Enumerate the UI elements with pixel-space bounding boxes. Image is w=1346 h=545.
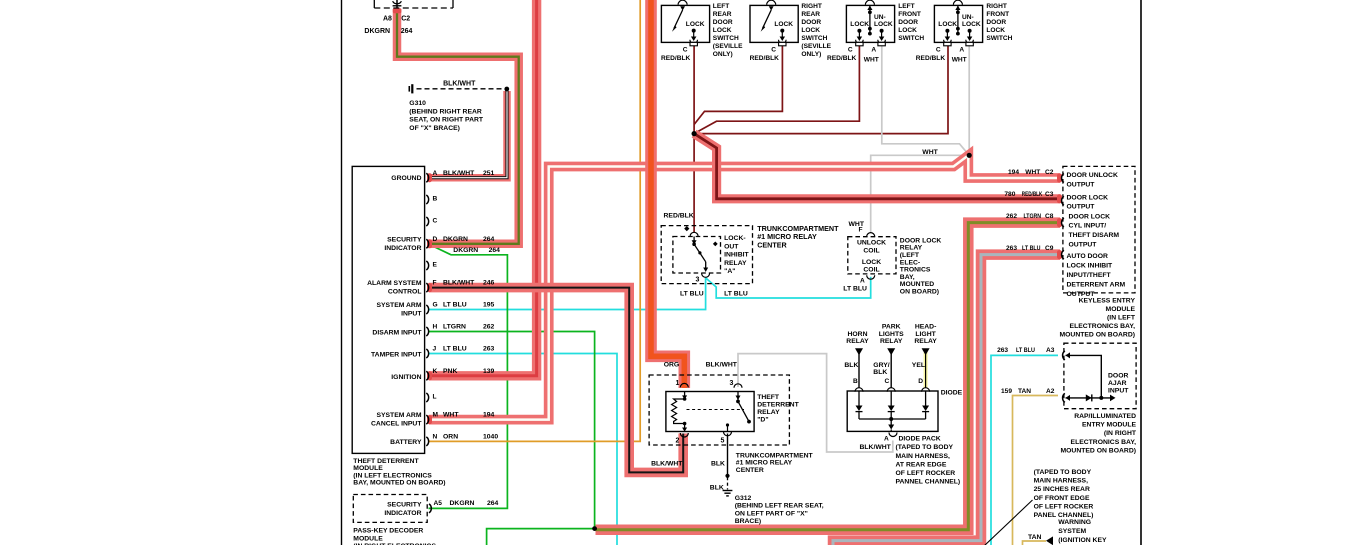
svg-text:G312: G312 — [735, 495, 752, 502]
svg-text:ELECTRONICS BAY,: ELECTRONICS BAY, — [1071, 439, 1137, 446]
svg-text:LT BLU: LT BLU — [443, 302, 467, 309]
svg-text:MAIN HARNESS,: MAIN HARNESS, — [896, 453, 950, 460]
svg-text:BLK/WHT: BLK/WHT — [443, 81, 476, 88]
svg-text:DKGRN: DKGRN — [443, 236, 468, 243]
svg-text:FRONT: FRONT — [898, 11, 921, 18]
svg-text:J: J — [433, 346, 437, 353]
svg-text:C3: C3 — [1045, 191, 1054, 198]
svg-text:LEFT: LEFT — [713, 3, 729, 10]
svg-text:LIGHTS: LIGHTS — [879, 331, 904, 338]
svg-text:LTGRN: LTGRN — [443, 324, 466, 331]
svg-text:246: 246 — [483, 280, 495, 287]
svg-text:LOCK: LOCK — [774, 21, 793, 28]
svg-text:LOCK-: LOCK- — [724, 235, 746, 242]
svg-text:PASS-KEY DECODER: PASS-KEY DECODER — [353, 528, 423, 535]
svg-text:251: 251 — [483, 170, 495, 177]
svg-text:C: C — [433, 218, 438, 225]
svg-text:264: 264 — [401, 28, 413, 35]
svg-text:SWITCH: SWITCH — [713, 35, 739, 42]
svg-text:REAR: REAR — [713, 11, 732, 18]
svg-text:264: 264 — [487, 500, 499, 507]
svg-text:RED/BLK: RED/BLK — [1022, 191, 1043, 198]
svg-text:THEFT DETERRENT: THEFT DETERRENT — [353, 458, 419, 465]
svg-text:H: H — [433, 324, 438, 331]
svg-text:263: 263 — [997, 347, 1008, 354]
svg-text:CANCEL INPUT: CANCEL INPUT — [371, 421, 422, 428]
svg-text:OUTPUT: OUTPUT — [1069, 242, 1098, 249]
svg-text:B: B — [433, 196, 438, 203]
svg-text:139: 139 — [483, 368, 495, 375]
svg-text:TRUNKCOMPARTMENT: TRUNKCOMPARTMENT — [736, 452, 814, 459]
svg-text:YEL: YEL — [912, 362, 925, 369]
svg-text:CENTER: CENTER — [736, 467, 764, 474]
svg-text:PANNEL CHANNEL): PANNEL CHANNEL) — [896, 479, 961, 486]
svg-text:LT BLU: LT BLU — [843, 286, 867, 293]
svg-text:G: G — [433, 302, 438, 309]
svg-text:RELAY: RELAY — [914, 338, 937, 345]
svg-text:DKGRN: DKGRN — [450, 500, 475, 507]
svg-text:"A": "A" — [724, 268, 735, 275]
svg-text:BATTERY: BATTERY — [390, 439, 422, 446]
svg-text:C2: C2 — [401, 16, 410, 23]
svg-text:OF FRONT EDGE: OF FRONT EDGE — [1034, 495, 1090, 502]
svg-text:RED/BLK: RED/BLK — [750, 55, 780, 62]
svg-text:INDICATOR: INDICATOR — [384, 245, 421, 252]
svg-text:SECURITY: SECURITY — [387, 237, 422, 244]
svg-text:LT BLU: LT BLU — [443, 346, 467, 353]
svg-text:C: C — [848, 47, 853, 54]
svg-text:(IN RIGHT: (IN RIGHT — [1104, 430, 1137, 437]
svg-text:LOCK: LOCK — [898, 27, 917, 34]
svg-text:A3: A3 — [1046, 347, 1055, 354]
svg-text:LT BLU: LT BLU — [680, 290, 704, 297]
svg-text:BLK/WHT: BLK/WHT — [706, 361, 738, 368]
svg-text:WARNING: WARNING — [1058, 519, 1091, 526]
svg-text:LOCK: LOCK — [962, 21, 981, 28]
svg-text:#1 MICRO RELAY: #1 MICRO RELAY — [736, 460, 793, 467]
svg-text:PANEL CHANNEL): PANEL CHANNEL) — [1034, 512, 1094, 519]
svg-text:D: D — [918, 378, 923, 385]
svg-text:F: F — [433, 280, 437, 287]
svg-text:PNK: PNK — [443, 368, 457, 375]
svg-text:FRONT: FRONT — [986, 11, 1009, 18]
svg-text:(BEHIND RIGHT REAR: (BEHIND RIGHT REAR — [409, 108, 482, 115]
svg-text:DETERRENT ARM: DETERRENT ARM — [1067, 281, 1126, 288]
svg-text:LOCK: LOCK — [713, 27, 732, 34]
svg-text:264: 264 — [483, 236, 495, 243]
svg-text:MOUNTED ON BOARD): MOUNTED ON BOARD) — [1059, 332, 1135, 339]
svg-text:DOOR: DOOR — [713, 19, 733, 26]
svg-text:(TAPED TO BODY: (TAPED TO BODY — [896, 444, 954, 451]
svg-text:WHT: WHT — [922, 149, 938, 156]
svg-text:RELAY: RELAY — [724, 260, 747, 267]
svg-text:DKGRN: DKGRN — [364, 28, 390, 35]
svg-text:INPUT/THEFT: INPUT/THEFT — [1067, 272, 1112, 279]
svg-text:OF LEFT ROCKER: OF LEFT ROCKER — [1034, 503, 1094, 510]
svg-text:A8: A8 — [383, 16, 392, 23]
svg-text:C: C — [683, 47, 688, 54]
svg-text:ELECTRONICS BAY,: ELECTRONICS BAY, — [1070, 323, 1136, 330]
svg-text:BLK/WHT: BLK/WHT — [443, 170, 475, 177]
svg-text:A: A — [860, 278, 865, 285]
svg-text:3: 3 — [696, 277, 700, 284]
svg-text:MOUNTED: MOUNTED — [900, 281, 934, 288]
svg-text:RELAY: RELAY — [880, 338, 903, 345]
svg-text:OUTPUT: OUTPUT — [1067, 181, 1096, 188]
svg-text:A: A — [959, 47, 964, 54]
svg-text:RELAY: RELAY — [757, 409, 780, 416]
svg-text:LT BLU: LT BLU — [1016, 347, 1035, 354]
svg-text:DOOR: DOOR — [898, 19, 918, 26]
svg-text:CENTER: CENTER — [757, 241, 787, 250]
svg-text:AJAR: AJAR — [1108, 380, 1127, 387]
svg-text:OUTPUT: OUTPUT — [1067, 204, 1096, 211]
svg-text:RELAY: RELAY — [900, 245, 923, 252]
svg-text:AUTO DOOR: AUTO DOOR — [1067, 253, 1109, 260]
svg-text:LOCK: LOCK — [862, 259, 881, 266]
svg-text:ON LEFT PART OF "X": ON LEFT PART OF "X" — [735, 510, 808, 517]
svg-text:COIL: COIL — [863, 266, 879, 273]
svg-text:262: 262 — [483, 324, 495, 331]
svg-text:TRONICS: TRONICS — [900, 267, 931, 274]
svg-text:DOOR: DOOR — [986, 19, 1006, 26]
svg-text:ON BOARD): ON BOARD) — [900, 289, 939, 296]
svg-text:RED/BLK: RED/BLK — [661, 55, 691, 62]
svg-text:BRACE): BRACE) — [735, 518, 761, 525]
svg-text:A: A — [884, 435, 889, 442]
svg-text:RELAY: RELAY — [846, 338, 869, 345]
svg-text:ELEC-: ELEC- — [900, 259, 920, 266]
svg-text:BAY,: BAY, — [900, 274, 915, 281]
svg-text:ORG: ORG — [664, 361, 679, 368]
svg-text:LT BLU: LT BLU — [724, 290, 748, 297]
svg-text:LOCK: LOCK — [986, 27, 1005, 34]
svg-text:2: 2 — [676, 437, 680, 444]
svg-text:263: 263 — [1006, 245, 1017, 252]
svg-text:OUT: OUT — [724, 243, 739, 250]
svg-text:KEYLESS ENTRY: KEYLESS ENTRY — [1079, 298, 1136, 305]
svg-text:DIODE PACK: DIODE PACK — [899, 435, 941, 442]
svg-text:F: F — [859, 227, 863, 234]
svg-text:LEFT: LEFT — [898, 3, 914, 10]
svg-text:UN-: UN- — [874, 14, 886, 21]
svg-text:LOCK: LOCK — [686, 21, 705, 28]
svg-text:DISARM INPUT: DISARM INPUT — [372, 330, 422, 337]
svg-text:LOCK INHIBIT: LOCK INHIBIT — [1067, 263, 1114, 270]
svg-text:DIODE: DIODE — [941, 390, 963, 397]
svg-text:GRY/: GRY/ — [873, 362, 889, 369]
svg-text:TAN: TAN — [1018, 388, 1031, 395]
svg-text:1: 1 — [676, 380, 680, 387]
svg-text:BLK/WHT: BLK/WHT — [443, 280, 475, 287]
svg-text:262: 262 — [1006, 213, 1017, 220]
svg-text:RED/BLK: RED/BLK — [664, 213, 694, 220]
svg-text:INPUT: INPUT — [401, 311, 422, 318]
svg-text:E: E — [433, 262, 438, 269]
svg-text:194: 194 — [1008, 169, 1019, 176]
svg-text:BAY, MOUNTED ON BOARD): BAY, MOUNTED ON BOARD) — [353, 480, 445, 487]
svg-text:LOCK: LOCK — [874, 21, 893, 28]
svg-text:UNLOCK: UNLOCK — [857, 239, 886, 246]
svg-text:(IGNITION KEY: (IGNITION KEY — [1058, 537, 1107, 544]
svg-text:N: N — [433, 433, 438, 440]
svg-text:CYL INPUT/: CYL INPUT/ — [1069, 223, 1107, 230]
svg-text:SYSTEM: SYSTEM — [1058, 528, 1086, 535]
svg-text:THEFT DISARM: THEFT DISARM — [1069, 232, 1120, 239]
svg-text:COIL: COIL — [863, 247, 879, 254]
svg-text:C: C — [936, 47, 941, 54]
svg-text:1040: 1040 — [483, 433, 498, 440]
svg-text:BLK/WHT: BLK/WHT — [860, 444, 892, 451]
svg-text:DOOR LOCK: DOOR LOCK — [1069, 213, 1111, 220]
svg-text:DOOR UNLOCK: DOOR UNLOCK — [1067, 172, 1118, 179]
svg-text:159: 159 — [1001, 388, 1012, 395]
svg-text:REAR: REAR — [801, 11, 820, 18]
svg-text:DOOR: DOOR — [1108, 372, 1128, 379]
svg-text:SYSTEM ARM: SYSTEM ARM — [376, 412, 421, 419]
svg-text:ENTRY MODULE: ENTRY MODULE — [1082, 422, 1136, 429]
svg-text:BLK: BLK — [711, 461, 725, 468]
svg-text:MODULE: MODULE — [1106, 306, 1136, 313]
svg-text:264: 264 — [489, 247, 501, 254]
svg-text:MAIN HARNESS,: MAIN HARNESS, — [1034, 478, 1088, 485]
svg-text:BLK: BLK — [710, 485, 724, 492]
svg-text:780: 780 — [1004, 191, 1015, 198]
svg-text:ALARM SYSTEM: ALARM SYSTEM — [367, 280, 422, 287]
svg-text:(BEHIND LEFT REAR SEAT,: (BEHIND LEFT REAR SEAT, — [735, 503, 824, 510]
svg-text:LOCK: LOCK — [801, 27, 820, 34]
svg-text:TAN: TAN — [1028, 534, 1042, 541]
svg-text:WHT: WHT — [1025, 169, 1040, 176]
svg-text:5: 5 — [721, 437, 725, 444]
svg-text:194: 194 — [483, 412, 495, 419]
svg-text:GROUND: GROUND — [391, 175, 421, 182]
svg-text:M: M — [433, 412, 439, 419]
svg-text:HORN: HORN — [847, 331, 867, 338]
svg-text:CONTROL: CONTROL — [388, 289, 422, 296]
svg-text:DKGRN: DKGRN — [453, 247, 478, 254]
svg-text:DOOR LOCK: DOOR LOCK — [900, 237, 942, 244]
svg-text:INHIBIT: INHIBIT — [724, 252, 749, 259]
svg-text:WHT: WHT — [952, 57, 967, 64]
svg-text:(LEFT: (LEFT — [900, 252, 920, 259]
svg-text:UN-: UN- — [962, 14, 974, 21]
svg-text:C: C — [885, 378, 890, 385]
svg-text:(SEVILLE: (SEVILLE — [801, 43, 831, 50]
svg-text:LOCK: LOCK — [938, 21, 957, 28]
svg-text:B: B — [853, 378, 858, 385]
svg-text:OF LEFT ROCKER: OF LEFT ROCKER — [896, 470, 956, 477]
svg-text:LTGRN: LTGRN — [1024, 213, 1042, 220]
svg-text:L: L — [433, 394, 437, 401]
svg-text:WHT: WHT — [443, 412, 459, 419]
svg-text:A: A — [433, 170, 438, 177]
svg-text:IGNITION: IGNITION — [391, 374, 421, 381]
svg-text:RIGHT: RIGHT — [986, 3, 1007, 10]
svg-text:3: 3 — [730, 380, 734, 387]
svg-text:OF "X" BRACE): OF "X" BRACE) — [409, 125, 460, 132]
svg-text:PARK: PARK — [882, 323, 901, 330]
svg-text:195: 195 — [483, 302, 495, 309]
svg-text:C9: C9 — [1045, 245, 1054, 252]
svg-text:A5: A5 — [434, 500, 443, 507]
svg-text:ONLY): ONLY) — [801, 51, 821, 58]
svg-text:SYSTEM ARM: SYSTEM ARM — [376, 302, 421, 309]
svg-text:RAP/ILLUMINATED: RAP/ILLUMINATED — [1074, 413, 1136, 420]
svg-text:DOOR LOCK: DOOR LOCK — [1067, 194, 1109, 201]
svg-text:INPUT: INPUT — [1108, 387, 1129, 394]
svg-text:A2: A2 — [1046, 388, 1055, 395]
svg-text:SEAT, ON RIGHT PART: SEAT, ON RIGHT PART — [409, 117, 484, 124]
svg-text:MODULE: MODULE — [353, 535, 383, 542]
svg-text:BLK: BLK — [873, 369, 887, 376]
svg-text:(IN LEFT: (IN LEFT — [1107, 315, 1136, 322]
svg-text:AT REAR EDGE: AT REAR EDGE — [896, 461, 947, 468]
svg-text:MODULE: MODULE — [353, 465, 383, 472]
svg-text:TAMPER INPUT: TAMPER INPUT — [371, 352, 422, 359]
svg-text:ONLY): ONLY) — [713, 51, 733, 58]
svg-text:RED/BLK: RED/BLK — [916, 55, 946, 62]
svg-text:SWITCH: SWITCH — [801, 35, 827, 42]
svg-text:RIGHT: RIGHT — [801, 3, 822, 10]
svg-text:INDICATOR: INDICATOR — [384, 510, 421, 517]
svg-text:"D": "D" — [757, 416, 768, 423]
svg-text:MOUNTED ON BOARD): MOUNTED ON BOARD) — [1060, 447, 1136, 454]
svg-text:SWITCH: SWITCH — [986, 35, 1012, 42]
svg-text:DETERRENT: DETERRENT — [757, 401, 799, 408]
svg-text:C8: C8 — [1045, 213, 1054, 220]
svg-text:C2: C2 — [1045, 169, 1054, 176]
svg-text:D: D — [433, 236, 438, 243]
svg-text:ORN: ORN — [443, 433, 458, 440]
svg-text:(TAPED TO BODY: (TAPED TO BODY — [1034, 469, 1092, 476]
svg-text:K: K — [433, 368, 438, 375]
svg-text:DOOR: DOOR — [801, 19, 821, 26]
svg-text:A: A — [871, 47, 876, 54]
svg-text:SWITCH: SWITCH — [898, 35, 924, 42]
svg-text:BLK/WHT: BLK/WHT — [651, 461, 683, 468]
svg-text:LT BLU: LT BLU — [1022, 245, 1041, 252]
svg-text:G310: G310 — [409, 100, 426, 107]
svg-text:C: C — [771, 47, 776, 54]
svg-text:WHT: WHT — [864, 57, 879, 64]
svg-text:BLK: BLK — [844, 362, 858, 369]
svg-text:(IN LEFT ELECTRONICS: (IN LEFT ELECTRONICS — [353, 472, 432, 479]
svg-text:(SEVILLE: (SEVILLE — [713, 43, 743, 50]
svg-text:THEFT: THEFT — [757, 394, 780, 401]
svg-text:RED/BLK: RED/BLK — [827, 55, 857, 62]
svg-text:25 INCHES REAR: 25 INCHES REAR — [1034, 486, 1090, 493]
svg-text:SECURITY: SECURITY — [387, 502, 422, 509]
svg-text:HEAD-: HEAD- — [915, 323, 937, 330]
svg-text:263: 263 — [483, 346, 495, 353]
svg-text:LOCK: LOCK — [850, 21, 869, 28]
svg-text:LIGHT: LIGHT — [915, 331, 936, 338]
